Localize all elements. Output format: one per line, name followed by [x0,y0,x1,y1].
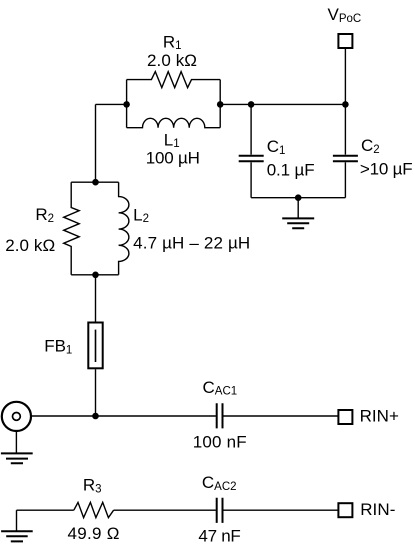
node junction right of R1L1 [217,101,224,108]
ferrite bead FB1 [88,323,102,369]
svg-text:R3: R3 [83,476,102,496]
node junction left of R1L1 [123,101,130,108]
wire R1L1 right side [219,80,221,128]
svg-text:100 µH: 100 µH [146,148,200,167]
capacitor C2 [333,156,358,162]
wire capacitor bottom bus [251,197,345,199]
svg-text:FB1: FB1 [44,337,72,357]
terminal RIN- [338,503,352,517]
wire R2L2 box top [71,181,118,183]
wire R2L2 box bottom [71,274,118,276]
svg-text:R2: R2 [35,205,54,225]
node junction C1 tap [248,101,255,108]
wire coax stem [15,431,17,453]
node junction R2L2 top [92,179,99,186]
svg-text:CAC1: CAC1 [203,378,238,398]
capacitor C1 [239,156,264,162]
wire C1 branch lower [250,162,252,197]
resistor R3 [74,502,114,517]
connector coax J1 [2,402,31,431]
resistor R1 [127,72,221,88]
node junction VPoC column [342,101,349,108]
svg-text:2.0 kΩ: 2.0 kΩ [5,236,55,255]
wire RIN+ row right [223,415,338,417]
svg-text:>10 µF: >10 µF [360,159,413,178]
node junction R2L2 bottom [92,272,99,279]
svg-text:100 nF: 100 nF [193,433,247,452]
inductor L1 [127,118,221,127]
wire RIN- row middle [114,509,216,511]
svg-text:R1: R1 [163,32,182,52]
svg-text:VPoC: VPoC [328,5,362,25]
svg-text:4.7 µH – 22 µH: 4.7 µH – 22 µH [133,233,250,252]
svg-text:RIN-: RIN- [360,500,395,519]
wire C2 branch lower [344,162,346,197]
capacitor CAC2 [217,498,223,523]
node junction ground tap [295,194,302,201]
svg-text:CAC2: CAC2 [202,473,237,493]
wire VPoC vertical [344,49,346,155]
ground below capacitors [282,198,314,229]
wire left branch vertical middle [95,275,97,322]
wire R1L1 left side [126,80,128,128]
svg-text:2.0 kΩ: 2.0 kΩ [147,51,197,70]
inductor L2 [119,182,129,275]
resistor R2 [64,182,79,275]
wire left branch vertical lower [95,369,97,416]
svg-text:C2: C2 [361,136,380,156]
svg-text:L2: L2 [133,205,149,225]
capacitor CAC1 [217,403,223,428]
svg-text:L1: L1 [164,130,180,150]
terminal RIN+ [338,410,352,424]
wire RIN+ row left [31,415,216,417]
wire left branch vertical upper [95,104,97,182]
ground RIN- row [1,510,33,541]
wire top horizontal right [220,103,345,105]
wire top horizontal left [96,103,127,105]
svg-text:RIN+: RIN+ [360,406,399,425]
svg-text:C1: C1 [267,137,286,157]
svg-text:49.9 Ω: 49.9 Ω [68,524,120,543]
wire RIN- row left [17,509,74,511]
ground below coax [1,453,33,463]
wire C1 branch upper [250,104,252,154]
svg-text:47 nF: 47 nF [198,527,240,546]
node junction RIN+ row [92,413,99,420]
wire RIN- row right [223,509,338,511]
terminal VPoC [338,34,352,48]
svg-text:0.1 µF: 0.1 µF [267,160,315,179]
